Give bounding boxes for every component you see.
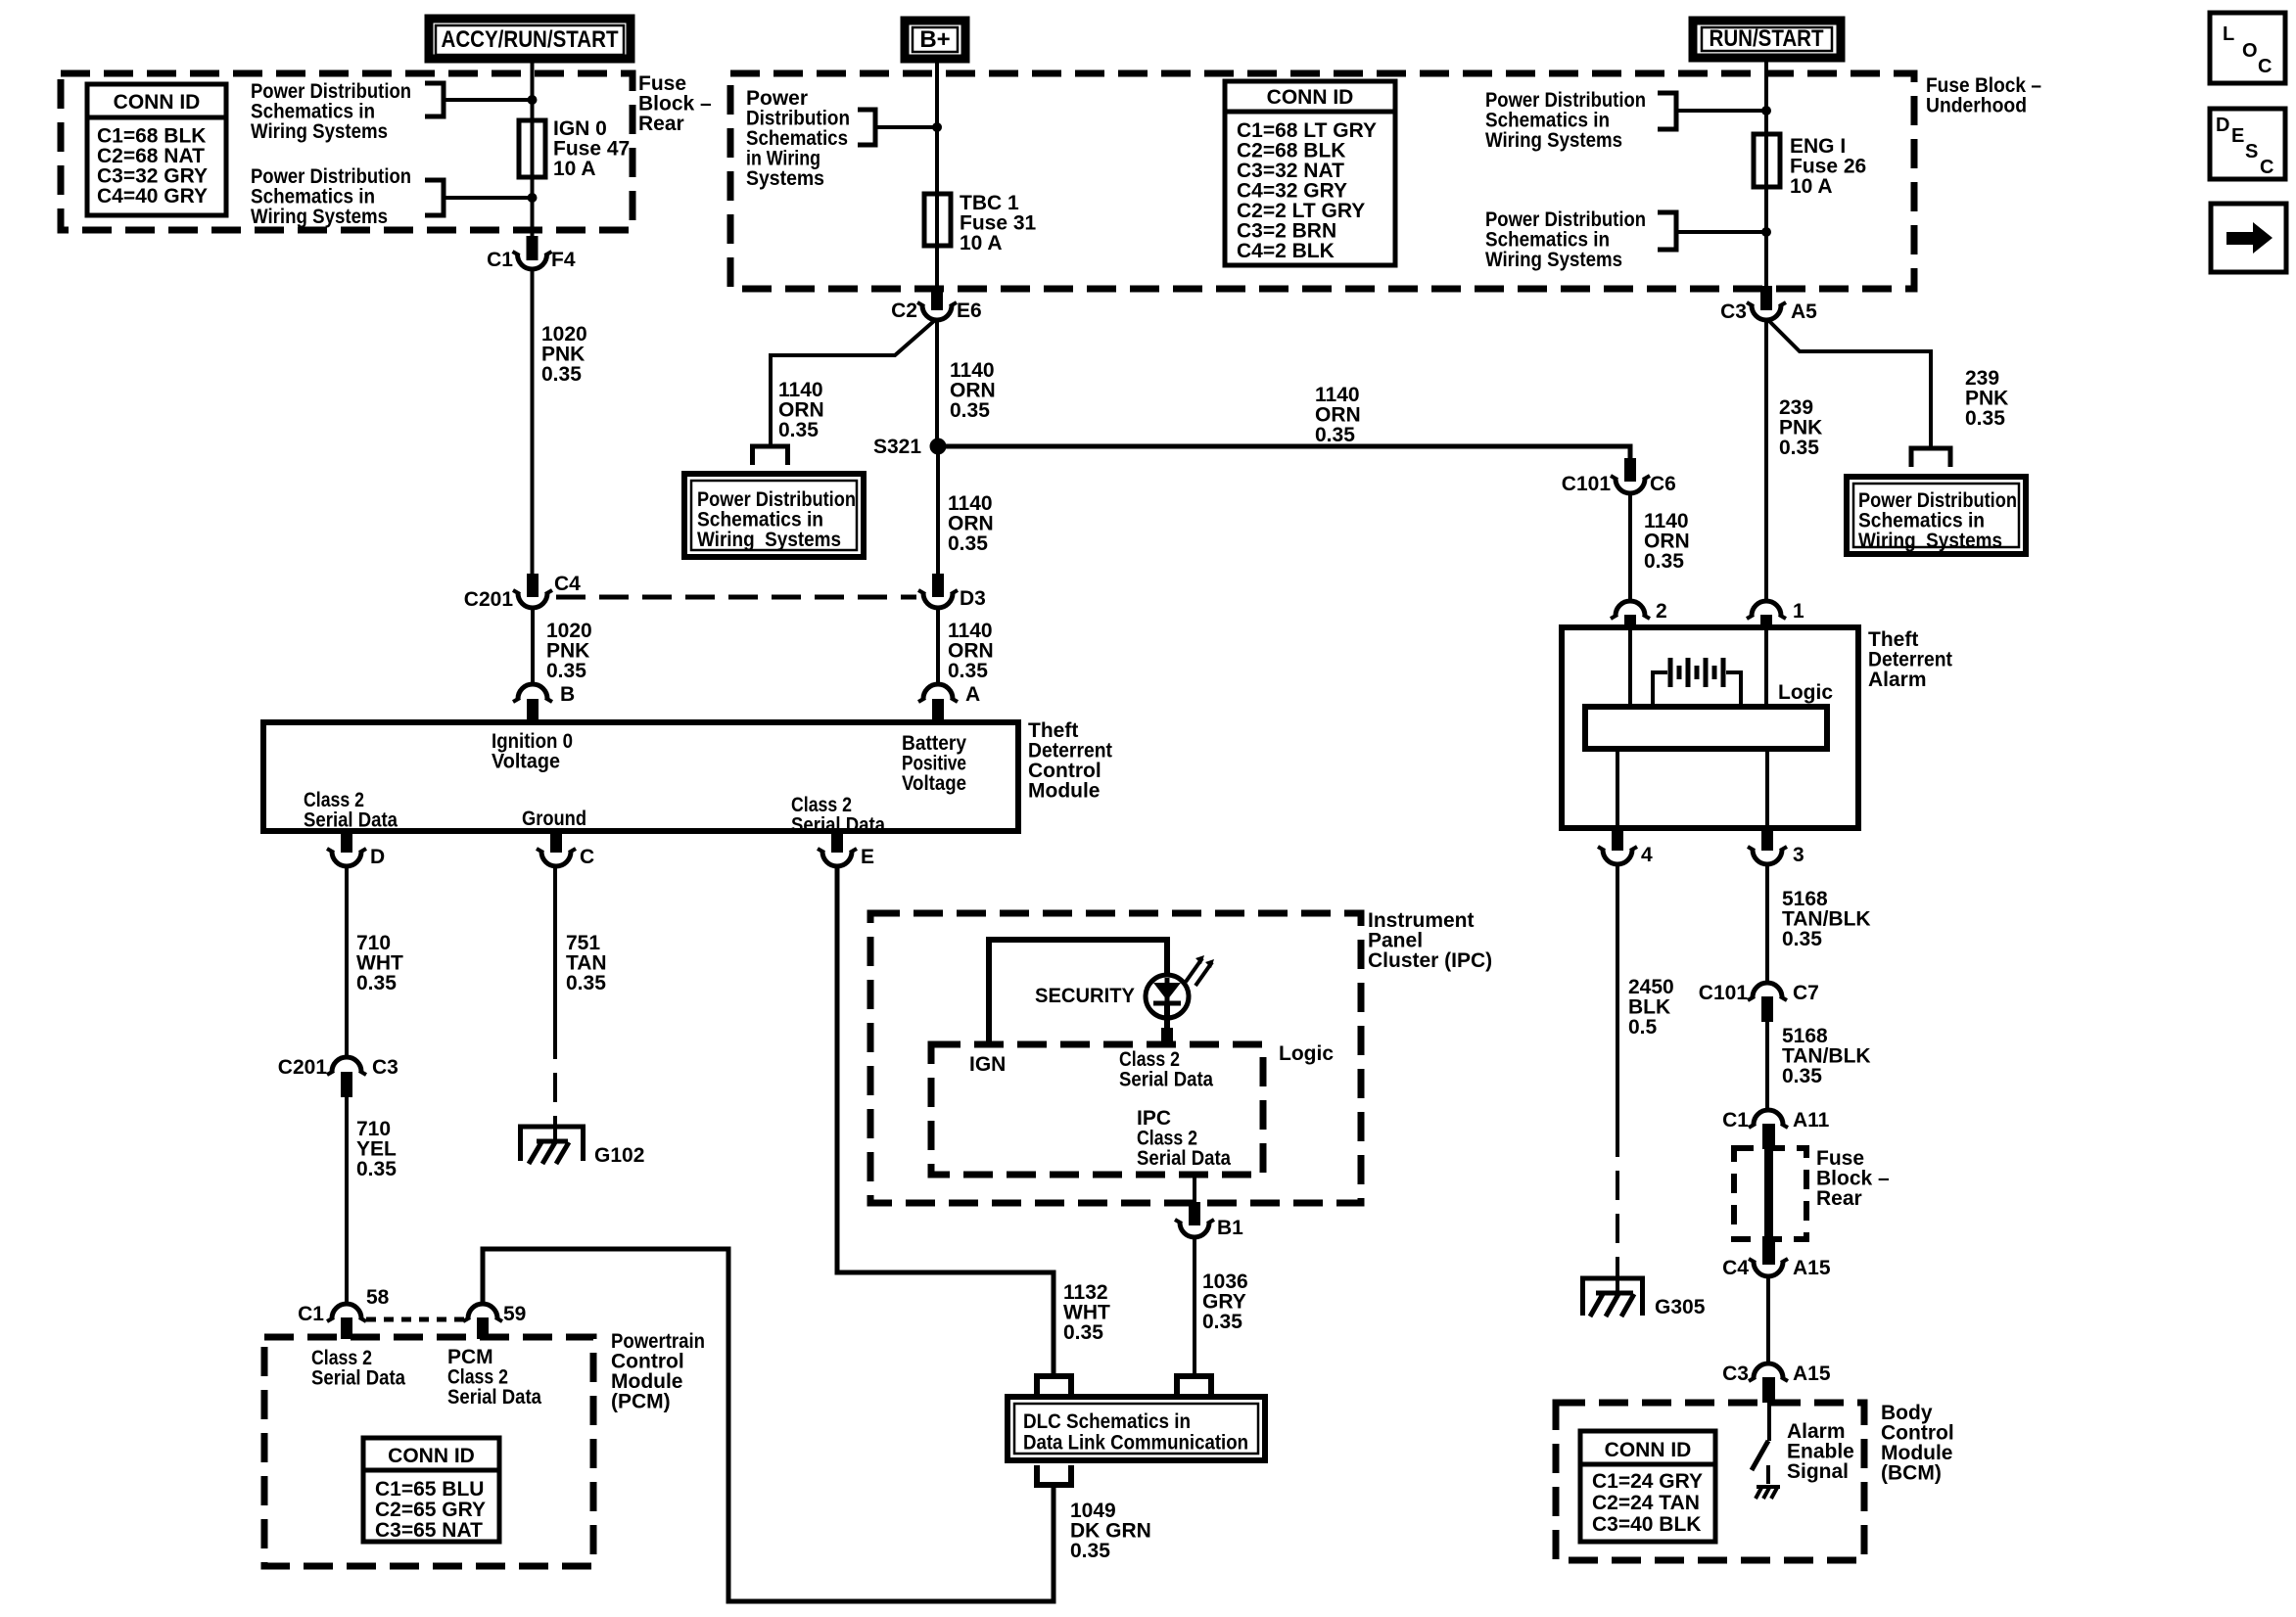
svg-text:0.35: 0.35 xyxy=(356,972,397,994)
svg-text:0.35: 0.35 xyxy=(1070,1540,1110,1562)
connector C1/F4 xyxy=(487,236,576,271)
wire logic to pin 4 xyxy=(1616,749,1619,829)
svg-text:E: E xyxy=(2231,125,2244,147)
theft deterrent alarm box xyxy=(1562,627,1858,828)
svg-text:C6: C6 xyxy=(1650,473,1676,495)
bracket (power distribution box mid) xyxy=(753,446,788,465)
svg-text:E: E xyxy=(861,846,874,868)
svg-text:Logic: Logic xyxy=(1778,681,1833,704)
node junction dot 2 xyxy=(528,193,538,203)
wire dotted 58 to 59 xyxy=(366,1317,465,1322)
label 1140 ORN 0.35 (S321 to D3) xyxy=(948,492,994,555)
svg-text:Ground: Ground xyxy=(522,808,586,830)
wire B+ vertical xyxy=(935,59,939,194)
svg-text:D: D xyxy=(2216,115,2229,136)
svg-text:E6: E6 xyxy=(957,300,982,322)
svg-text:C101: C101 xyxy=(1699,982,1749,1004)
wire bracket1 to eng feed xyxy=(1676,109,1766,113)
bracket 1 (rear) xyxy=(425,83,444,116)
svg-text:Voltage: Voltage xyxy=(492,751,560,773)
node junction dot 1 xyxy=(528,95,538,105)
wire C7 to C1/A11 xyxy=(1765,1022,1769,1108)
wire pin3 to C101/C7 xyxy=(1765,865,1769,981)
svg-text:Underhood: Underhood xyxy=(1926,95,2027,117)
wire IPC data out xyxy=(1193,1175,1196,1204)
conn id table (PCM) xyxy=(363,1438,499,1542)
label 1036 GRY 0.35 xyxy=(1202,1270,1248,1333)
svg-text:Logic: Logic xyxy=(1279,1042,1334,1065)
label 1140 ORN 0.35 (C6) xyxy=(1644,510,1690,573)
svg-text:Serial Data: Serial Data xyxy=(304,809,398,832)
svg-text:S: S xyxy=(2245,141,2258,162)
wire 1036 GRY xyxy=(1193,1238,1196,1374)
IPC logic dashed box xyxy=(931,1044,1263,1175)
svg-text:CONN ID: CONN ID xyxy=(388,1445,475,1467)
svg-text:Systems: Systems xyxy=(746,167,824,190)
fuse block underhood dashed box xyxy=(730,73,1914,289)
wire E6 to S321 xyxy=(935,320,939,440)
svg-text:C3: C3 xyxy=(1720,300,1747,323)
svg-text:0.35: 0.35 xyxy=(1782,1065,1822,1087)
pin C connector xyxy=(537,829,594,868)
node junction dot eng1 xyxy=(1761,106,1771,115)
wire D3 to pin A xyxy=(936,609,940,683)
svg-text:C4: C4 xyxy=(1722,1257,1749,1279)
svg-text:0.35: 0.35 xyxy=(546,660,586,682)
wire pin1 into alarm xyxy=(1764,627,1768,707)
wire pin2 into alarm xyxy=(1628,627,1632,707)
connector B1 xyxy=(1175,1202,1243,1239)
svg-text:B+: B+ xyxy=(919,26,950,53)
svg-text:C1=65 BLU: C1=65 BLU xyxy=(375,1478,484,1501)
node junction dot eng2 xyxy=(1761,227,1771,237)
svg-text:RUN/START: RUN/START xyxy=(1710,25,1824,52)
label power distribution 1 (rear) xyxy=(251,80,411,143)
label 1140 ORN 0.35 (branch left) xyxy=(778,379,824,441)
connector D3 xyxy=(918,574,986,610)
svg-text:0.35: 0.35 xyxy=(1202,1311,1242,1333)
wire logic to pin 3 xyxy=(1765,749,1769,829)
svg-text:59: 59 xyxy=(503,1303,526,1325)
svg-text:C101: C101 xyxy=(1562,473,1612,495)
bracket DLC pin left xyxy=(1037,1376,1071,1397)
svg-text:C: C xyxy=(2260,157,2273,178)
wire 710 YEL xyxy=(345,1097,349,1302)
wire fuse26 to C3/A5 xyxy=(1764,187,1768,290)
power distribution schematics box (right) xyxy=(1847,477,2026,554)
box DESC xyxy=(2210,109,2285,179)
ground G102 xyxy=(518,1120,644,1167)
svg-text:0.35: 0.35 xyxy=(778,419,819,441)
logic box (alarm) xyxy=(1585,681,1833,749)
svg-text:S321: S321 xyxy=(873,436,921,458)
svg-text:Wiring Systems: Wiring Systems xyxy=(1485,129,1622,152)
label Fuse Block - Underhood xyxy=(1926,74,2041,117)
battery symbol (alarm sounder) xyxy=(1653,658,1741,707)
label 239 PNK 0.35 (branch) xyxy=(1965,367,2008,430)
ground G305 xyxy=(1580,1270,1706,1318)
svg-text:C1: C1 xyxy=(298,1303,324,1325)
svg-text:L: L xyxy=(2223,23,2234,45)
label power distribution 2 (rear) xyxy=(251,165,411,228)
label 5168 TAN/BLK 0.35 (upper) xyxy=(1782,888,1871,950)
label Class 2 Serial Data (IPC) xyxy=(1119,1048,1213,1091)
label power distribution 2 (underhood) xyxy=(1485,208,1646,271)
label Instrument Panel Cluster (IPC) xyxy=(1368,909,1492,972)
power feed box RUN/START xyxy=(1693,21,1841,58)
label 1132 WHT 0.35 xyxy=(1063,1281,1110,1344)
svg-text:10 A: 10 A xyxy=(553,158,596,180)
bracket 1 (underhood) xyxy=(1658,93,1676,129)
svg-text:CONN ID: CONN ID xyxy=(1605,1439,1692,1461)
svg-text:CONN ID: CONN ID xyxy=(114,91,201,114)
pin B connector xyxy=(513,683,575,724)
power feed box ACCY/RUN/START xyxy=(429,19,631,59)
svg-text:C3: C3 xyxy=(372,1056,398,1079)
LED light rays xyxy=(1186,955,1214,986)
svg-text:C3=40 BLK: C3=40 BLK xyxy=(1592,1513,1701,1536)
body control module dashed box xyxy=(1556,1403,1864,1560)
pin A connector xyxy=(918,683,980,724)
svg-text:C7: C7 xyxy=(1793,982,1819,1004)
label 710 YEL 0.35 xyxy=(356,1118,397,1180)
svg-text:10 A: 10 A xyxy=(960,232,1003,254)
svg-text:A15: A15 xyxy=(1793,1363,1831,1385)
switch alarm enable xyxy=(1752,1403,1769,1484)
label 1140 ORN 0.35 (above S321) xyxy=(950,359,996,422)
label 710 WHT 0.35 xyxy=(356,932,403,994)
svg-text:0.35: 0.35 xyxy=(1063,1321,1103,1344)
connector C101/C7 xyxy=(1699,982,1819,1022)
svg-text:O: O xyxy=(2242,40,2258,62)
conn id table (BCM) xyxy=(1580,1431,1715,1542)
svg-text:Serial Data: Serial Data xyxy=(1137,1147,1231,1170)
pin D connector xyxy=(327,829,385,868)
connector C4/A15 xyxy=(1722,1241,1831,1279)
svg-text:C3=65 NAT: C3=65 NAT xyxy=(375,1519,483,1542)
wire diagonal branch from E6 xyxy=(771,320,935,446)
node junction dot B+ xyxy=(932,122,942,132)
label 1140 ORN 0.35 (bus) xyxy=(1315,384,1361,446)
bracket DLC pin bottom xyxy=(1037,1465,1071,1485)
wire ACCY feed vertical xyxy=(531,59,535,120)
svg-text:C201: C201 xyxy=(464,588,514,611)
wire A15 to C3/A15 xyxy=(1766,1277,1770,1363)
wire S321 to D3 xyxy=(936,446,940,576)
connector C1/A11 xyxy=(1722,1109,1830,1149)
svg-text:4: 4 xyxy=(1641,844,1653,866)
svg-text:Signal: Signal xyxy=(1787,1460,1849,1483)
box LOC xyxy=(2210,13,2285,83)
svg-text:A11: A11 xyxy=(1793,1109,1830,1132)
svg-text:D: D xyxy=(370,846,385,868)
svg-text:(PCM): (PCM) xyxy=(611,1391,671,1413)
svg-text:Wiring Systems: Wiring Systems xyxy=(697,529,841,551)
powertrain control module dashed box xyxy=(264,1337,593,1566)
label Body Control Module (BCM) xyxy=(1881,1402,1954,1485)
svg-text:Wiring Systems: Wiring Systems xyxy=(251,206,388,228)
connector C2/E6 xyxy=(891,286,982,322)
svg-text:0.35: 0.35 xyxy=(541,363,582,386)
wire fuse31 to C2/E6 xyxy=(935,246,939,290)
label Alarm Enable Signal xyxy=(1787,1420,1854,1483)
fuse ENG I Fuse 26 10A xyxy=(1754,134,1866,198)
label Theft Deterrent Alarm xyxy=(1868,628,1952,691)
connector C201/C4 xyxy=(464,573,581,611)
bracket DLC pin right xyxy=(1177,1376,1211,1397)
svg-text:C2=24 TAN: C2=24 TAN xyxy=(1592,1492,1700,1514)
svg-text:A15: A15 xyxy=(1793,1257,1831,1279)
wire 1049 DK GRN (pcm 59 to dlc) xyxy=(483,1249,1054,1601)
wire bracket1 to ign0 feed xyxy=(444,98,533,102)
wire 751 TAN dashed xyxy=(553,1030,557,1124)
svg-text:3: 3 xyxy=(1793,844,1804,866)
svg-text:B1: B1 xyxy=(1217,1217,1243,1239)
wire fuse47 to connector C1/F4 xyxy=(531,177,535,239)
svg-text:0.35: 0.35 xyxy=(1965,407,2005,430)
svg-text:Wiring Systems: Wiring Systems xyxy=(251,120,388,143)
svg-text:C3: C3 xyxy=(1722,1363,1749,1385)
theft deterrent control module box xyxy=(263,722,1018,837)
svg-text:G305: G305 xyxy=(1655,1296,1706,1318)
svg-text:0.5: 0.5 xyxy=(1628,1016,1658,1039)
svg-text:Wiring Systems: Wiring Systems xyxy=(1485,249,1622,271)
svg-text:C: C xyxy=(580,846,594,868)
svg-text:Rear: Rear xyxy=(638,113,684,135)
label PCM pin 58 Class 2 Serial Data xyxy=(311,1347,405,1390)
svg-text:DLC Schematics in: DLC Schematics in xyxy=(1023,1410,1191,1433)
svg-text:C1: C1 xyxy=(487,249,513,271)
svg-text:G102: G102 xyxy=(594,1144,644,1167)
label PCM pin 59 PCM Class 2 Serial Data xyxy=(447,1346,541,1409)
label 2450 BLK 0.5 xyxy=(1628,976,1674,1039)
svg-text:Serial Data: Serial Data xyxy=(447,1386,541,1409)
label Powertrain Control Module (PCM) xyxy=(611,1330,705,1413)
connector 59 (PCM) xyxy=(463,1303,526,1339)
label 751 TAN 0.35 xyxy=(566,932,607,994)
label power distribution 1 (underhood) xyxy=(1485,89,1646,152)
svg-text:Cluster (IPC): Cluster (IPC) xyxy=(1368,949,1492,972)
label 1140 ORN 0.35 (to pin A) xyxy=(948,620,994,682)
svg-text:C1: C1 xyxy=(1722,1109,1749,1132)
power distribution schematics box (mid) xyxy=(684,474,864,557)
label IPC Class 2 Serial Data xyxy=(1137,1107,1231,1170)
label 1020 PNK 0.35 (lower) xyxy=(546,620,592,682)
svg-text:C1=24 GRY: C1=24 GRY xyxy=(1592,1470,1703,1493)
svg-text:F4: F4 xyxy=(551,249,576,271)
pin 4 connector xyxy=(1598,827,1653,866)
svg-text:Data Link Communication: Data Link Communication xyxy=(1023,1432,1248,1455)
svg-text:C2: C2 xyxy=(891,300,917,322)
fuse block rear small dashed box xyxy=(1734,1148,1806,1239)
pin 1 connector xyxy=(1747,600,1804,629)
svg-text:C2=65 GRY: C2=65 GRY xyxy=(375,1499,486,1521)
svg-text:0.35: 0.35 xyxy=(1644,550,1684,573)
svg-text:0.35: 0.35 xyxy=(1315,424,1355,446)
svg-text:Voltage: Voltage xyxy=(902,772,966,795)
bracket 2 (underhood) xyxy=(1658,212,1676,250)
svg-text:58: 58 xyxy=(366,1286,390,1309)
svg-text:D3: D3 xyxy=(960,587,986,610)
fuse block rear dashed box xyxy=(61,73,633,230)
bracket (power distribution box right) xyxy=(1911,448,1950,467)
wire 2450 BLK dashed xyxy=(1616,1128,1619,1274)
label Fuse Block - Rear (small) xyxy=(1816,1147,1890,1210)
wire S321 bus to C101/C6 xyxy=(938,446,1630,458)
svg-text:Rear: Rear xyxy=(1816,1187,1862,1210)
connector C3/A15 xyxy=(1722,1363,1831,1403)
wire bracket2 to ign0 feed xyxy=(444,196,533,200)
svg-text:B: B xyxy=(560,683,575,706)
node S321 junction xyxy=(873,436,947,458)
wire through rear fuse block xyxy=(1764,1135,1773,1245)
fuse IGN 0 Fuse 47 10A xyxy=(519,117,630,180)
svg-text:Module: Module xyxy=(1028,780,1101,803)
wire 2450 BLK solid xyxy=(1616,865,1619,1128)
bracket (B+ feed) xyxy=(858,110,875,145)
label Theft Deterrent Control Module xyxy=(1028,719,1112,803)
label 1049 DK GRN 0.35 xyxy=(1070,1500,1151,1562)
svg-text:A5: A5 xyxy=(1791,300,1817,323)
pin 3 connector xyxy=(1748,827,1804,866)
wire 1020 PNK to pin B xyxy=(531,609,535,683)
ground (switch, BCM) xyxy=(1756,1487,1780,1499)
svg-text:ACCY/RUN/START: ACCY/RUN/START xyxy=(442,26,619,53)
wire RUN/START vertical xyxy=(1764,58,1768,134)
svg-text:0.35: 0.35 xyxy=(948,660,988,682)
fuse TBC 1 Fuse 31 10A xyxy=(924,192,1037,254)
connector C201/C3 xyxy=(278,1056,398,1097)
pin 2 connector xyxy=(1611,600,1667,629)
bracket 2 (rear) xyxy=(425,180,444,215)
svg-text:0.35: 0.35 xyxy=(1782,928,1822,950)
svg-text:Alarm: Alarm xyxy=(1868,669,1927,691)
svg-text:0.35: 0.35 xyxy=(566,972,606,994)
label 1020 PNK 0.35 xyxy=(541,323,587,386)
svg-text:1: 1 xyxy=(1793,600,1804,623)
DLC schematics box xyxy=(1007,1397,1265,1460)
svg-text:(BCM): (BCM) xyxy=(1881,1462,1942,1485)
label Fuse Block - Rear xyxy=(638,72,712,135)
wire dashed C201 bus to D3 xyxy=(556,595,916,600)
wire security lamp circuit xyxy=(989,940,1167,1044)
svg-text:2: 2 xyxy=(1656,600,1667,623)
svg-text:0.35: 0.35 xyxy=(948,532,988,555)
connector C101/C6 xyxy=(1562,458,1676,495)
svg-text:C: C xyxy=(2258,56,2272,77)
connector C1/58 (PCM) xyxy=(298,1286,390,1339)
instrument panel cluster dashed box xyxy=(870,913,1361,1203)
box arrow (next page) xyxy=(2211,204,2286,272)
svg-text:SECURITY: SECURITY xyxy=(1035,985,1135,1007)
wire 1020 PNK to C201 xyxy=(531,270,535,576)
svg-text:C4=2 BLK: C4=2 BLK xyxy=(1237,240,1335,262)
wire A5 to pin 1 xyxy=(1764,320,1768,601)
conn id table (fuse block rear) xyxy=(87,84,226,215)
svg-text:Serial Data: Serial Data xyxy=(1119,1069,1213,1091)
connector C3/A5 xyxy=(1720,286,1817,323)
wire 751 TAN solid xyxy=(553,867,557,1030)
svg-text:C4: C4 xyxy=(554,573,581,595)
svg-text:IGN: IGN xyxy=(969,1053,1006,1076)
security indicator LED xyxy=(1146,975,1189,1030)
wire LED into logic stub xyxy=(1161,1028,1173,1047)
wire C6 to pin 2 xyxy=(1628,494,1632,601)
label power distribution (B+) xyxy=(746,87,850,190)
svg-text:Serial Data: Serial Data xyxy=(311,1367,405,1390)
svg-text:Wiring Systems: Wiring Systems xyxy=(1858,530,2002,552)
svg-text:CONN ID: CONN ID xyxy=(1267,86,1354,109)
svg-text:A: A xyxy=(965,683,980,706)
wire 1132 WHT (pin E to DLC) xyxy=(837,867,1054,1374)
wire diagonal branch from A5 xyxy=(1768,320,1931,446)
svg-text:0.35: 0.35 xyxy=(356,1158,397,1180)
svg-text:C4=40 GRY: C4=40 GRY xyxy=(97,185,208,208)
power feed box B+ xyxy=(905,21,965,59)
wire bracket2 to eng feed xyxy=(1676,230,1766,234)
svg-text:0.35: 0.35 xyxy=(1779,437,1819,459)
conn id table (underhood) xyxy=(1225,81,1395,265)
wire bracket to B+ feed xyxy=(875,125,937,129)
wire 710 WHT xyxy=(345,867,349,1055)
label 5168 TAN/BLK 0.35 (lower) xyxy=(1782,1025,1871,1087)
pin E connector xyxy=(818,829,874,868)
label 239 PNK 0.35 (main) xyxy=(1779,396,1822,459)
svg-text:10 A: 10 A xyxy=(1790,175,1833,198)
svg-text:C201: C201 xyxy=(278,1056,328,1079)
svg-text:0.35: 0.35 xyxy=(950,399,990,422)
